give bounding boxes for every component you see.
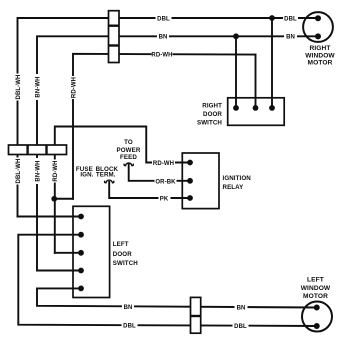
svg-text:BN: BN <box>159 35 168 41</box>
svg-text:OR-BK: OR-BK <box>155 179 176 185</box>
svg-text:BN-WH: BN-WH <box>35 76 41 97</box>
svg-text:SWITCH: SWITCH <box>197 119 222 126</box>
svg-text:IGNITION: IGNITION <box>223 175 252 182</box>
svg-text:WINDOW: WINDOW <box>305 53 335 60</box>
svg-text:RD-WH: RD-WH <box>151 53 172 59</box>
svg-text:DBL-WH: DBL-WH <box>16 75 22 100</box>
svg-text:DOOR: DOOR <box>203 111 222 118</box>
svg-text:DBL: DBL <box>157 16 170 22</box>
svg-text:RELAY: RELAY <box>223 184 245 191</box>
svg-text:LEFT: LEFT <box>307 277 324 284</box>
svg-text:TO: TO <box>124 139 133 146</box>
svg-text:BN-WH: BN-WH <box>35 160 41 181</box>
svg-text:DOOR: DOOR <box>113 251 132 258</box>
svg-text:RIGHT: RIGHT <box>202 103 222 110</box>
svg-text:RD-WH: RD-WH <box>153 161 174 167</box>
svg-text:DBL: DBL <box>234 324 247 330</box>
svg-text:BN: BN <box>286 35 295 41</box>
svg-text:MOTOR: MOTOR <box>303 293 328 300</box>
svg-text:RD-WH: RD-WH <box>53 160 59 181</box>
svg-text:BN: BN <box>237 306 246 312</box>
svg-text:FEED: FEED <box>120 154 137 161</box>
svg-text:DBL: DBL <box>123 324 136 330</box>
svg-text:PK: PK <box>160 197 169 203</box>
svg-text:LEFT: LEFT <box>113 241 129 248</box>
svg-text:IGN. TERM.: IGN. TERM. <box>80 171 115 178</box>
svg-text:MOTOR: MOTOR <box>308 60 333 67</box>
svg-text:BN: BN <box>124 305 133 311</box>
svg-text:RIGHT: RIGHT <box>309 45 330 52</box>
svg-text:WINDOW: WINDOW <box>301 285 331 292</box>
svg-text:DBL: DBL <box>284 17 297 23</box>
svg-text:RD-WH: RD-WH <box>71 77 77 98</box>
svg-text:DBL-WH: DBL-WH <box>16 159 22 184</box>
svg-text:POWER: POWER <box>117 147 141 154</box>
svg-text:SWITCH: SWITCH <box>113 260 138 267</box>
